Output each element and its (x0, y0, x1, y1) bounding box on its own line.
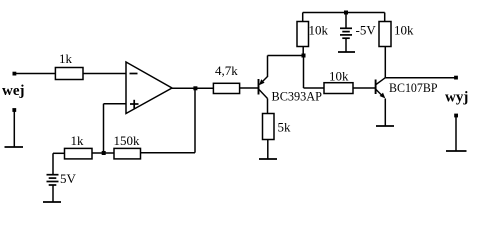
battery 5V (47, 175, 59, 202)
node emitter junction dot (302, 54, 306, 58)
wire R2 to node A to R3 (92, 152, 114, 154)
resistor R5 5k (263, 114, 275, 140)
resistor R3 150k (114, 148, 141, 159)
resistor R6 10k left vertical (297, 22, 309, 47)
op-amp plus sign (130, 100, 139, 109)
svg-text:BC107BP: BC107BP (389, 80, 438, 95)
svg-text:1k: 1k (59, 51, 73, 66)
wire op-amp output to R4 (172, 87, 214, 89)
svg-text:BC393AP: BC393AP (272, 89, 323, 104)
wire Q1 emitter up and right (267, 56, 269, 78)
ground 5k (259, 158, 277, 160)
wire rail to battery -5V (345, 13, 347, 28)
svg-text:wyj: wyj (445, 90, 468, 106)
ground 5V battery (43, 201, 61, 203)
ground input terminal (12, 108, 16, 112)
terminal wyj (454, 76, 458, 80)
wire Q2 emitter to ground (384, 99, 386, 127)
ground Q2 emitter (376, 125, 394, 127)
svg-text:10k: 10k (394, 23, 414, 38)
node A junction dot (102, 151, 106, 155)
wire top rail (303, 12, 385, 14)
wire 10k right bottom to Q2 collector junction (384, 47, 386, 78)
svg-text:10k: 10k (329, 69, 349, 84)
battery -5V (340, 28, 352, 38)
resistor R8 10k horizontal (324, 83, 353, 94)
svg-text:1k: 1k (71, 133, 85, 148)
svg-text:5k: 5k (278, 119, 292, 134)
op-amp minus sign (130, 73, 138, 75)
wire battery -5V to ground (345, 38, 347, 52)
svg-text:wej: wej (2, 83, 25, 99)
wire wej to R1 (14, 73, 56, 75)
svg-text:10k: 10k (309, 23, 329, 38)
wire Q1 collector to 5k (267, 99, 269, 114)
op-amp U1 (126, 62, 172, 114)
wire R3 to feedback corner (141, 152, 195, 154)
transistor Q2 BC107BP (376, 78, 386, 96)
svg-text:-5V: -5V (356, 22, 377, 37)
wire R4 to Q1 base (240, 87, 259, 89)
resistor R1 1k (55, 68, 83, 80)
resistor R7 10k right vertical (379, 22, 391, 47)
svg-text:4,7k: 4,7k (215, 63, 238, 78)
wire 5k to ground (267, 140, 269, 160)
wire 10k horizontal to Q2 base (353, 87, 376, 89)
svg-text:150k: 150k (114, 133, 141, 148)
terminal wej (13, 72, 17, 76)
resistor R2 1k (65, 148, 93, 159)
ground output terminal (454, 114, 458, 118)
wire feedback vertical (194, 88, 196, 152)
wire 10k left bottom to junction (302, 47, 304, 56)
wire output to wyj (385, 77, 456, 79)
resistor R4 4,7k (213, 83, 239, 93)
wire plus input (104, 103, 127, 105)
wire R1 to op-amp minus input (83, 73, 126, 75)
svg-text:5V: 5V (60, 171, 77, 186)
transistor Q1 BC393AP (259, 77, 268, 99)
wire junction down to 10k horizontal (303, 56, 305, 89)
node output junction dot (193, 86, 197, 90)
node rail junction dot (344, 11, 348, 15)
wire R2 left to battery (53, 152, 65, 154)
ground -5V battery (338, 51, 355, 53)
